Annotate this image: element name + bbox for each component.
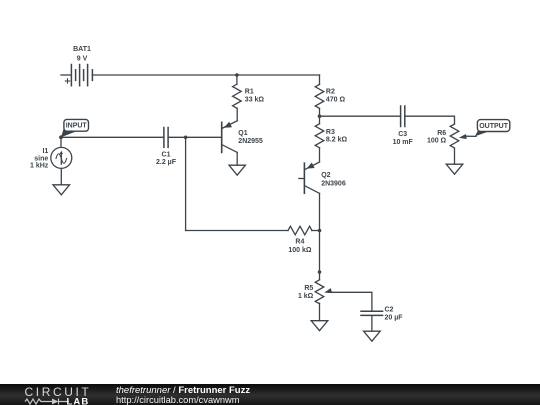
wire to R4 xyxy=(186,230,288,232)
svg-text:2N2955: 2N2955 xyxy=(238,138,263,145)
ground under Q1 xyxy=(229,165,245,175)
label R3 8.2 kΩ xyxy=(326,129,348,144)
label OUTPUT flag xyxy=(475,120,510,137)
wire C3 to R6 xyxy=(405,116,455,124)
resistor R4 xyxy=(288,226,312,235)
svg-text:9 V: 9 V xyxy=(77,55,88,62)
node junction C1 out xyxy=(184,136,188,140)
ground under I1 xyxy=(53,185,70,195)
label R2 470 Ω xyxy=(326,89,346,104)
footer url text xyxy=(116,395,239,405)
ground under C2 xyxy=(364,331,381,341)
svg-text:LAB: LAB xyxy=(67,397,90,405)
wire R2 drop xyxy=(319,75,321,84)
label BAT1 value xyxy=(73,46,91,62)
svg-text:R6: R6 xyxy=(437,130,446,137)
svg-text:I1: I1 xyxy=(42,148,48,155)
wire junction down xyxy=(185,137,187,230)
wire R6 wiper to OUTPUT xyxy=(465,135,477,137)
svg-text:BAT1: BAT1 xyxy=(73,46,91,53)
battery BAT1 xyxy=(61,65,92,86)
label Q1 2N2955 xyxy=(238,130,263,145)
label C3 10 mF xyxy=(393,131,414,146)
footer bar xyxy=(0,384,540,405)
svg-text:R1: R1 xyxy=(245,89,254,96)
svg-text:Q2: Q2 xyxy=(321,172,330,179)
wire Q1 collector down xyxy=(236,152,238,165)
capacitor C1 xyxy=(164,128,168,148)
node INPUT xyxy=(59,135,63,139)
wire C2 bottom lead xyxy=(371,315,373,331)
wire Q2 collector down xyxy=(319,193,321,230)
svg-text:INPUT: INPUT xyxy=(66,123,88,130)
potentiometer R6 xyxy=(450,124,467,148)
source I1 sine xyxy=(51,147,72,168)
resistor R2 xyxy=(315,84,324,108)
svg-text:R4: R4 xyxy=(295,239,304,246)
svg-text:1 kΩ: 1 kΩ xyxy=(298,293,314,300)
wire C1 to Q1 base xyxy=(168,136,222,138)
wire R1 top lead xyxy=(236,75,238,84)
svg-text:470 Ω: 470 Ω xyxy=(326,97,346,104)
wire input node to C1 xyxy=(61,136,164,138)
potentiometer R5 xyxy=(315,280,332,304)
wire R4 to junction xyxy=(312,230,320,232)
resistor R3 xyxy=(315,124,324,148)
node junction R4 xyxy=(318,229,322,233)
node junction above R5 xyxy=(318,270,322,274)
capacitor C2 xyxy=(361,311,383,315)
svg-text:33 kΩ: 33 kΩ xyxy=(245,96,265,103)
node junction top rail / R1 xyxy=(235,73,239,77)
svg-text:Q1: Q1 xyxy=(238,130,247,137)
resistor R1 xyxy=(233,84,242,108)
label R5 1 kΩ xyxy=(298,285,314,300)
wire R3 top lead xyxy=(319,116,321,124)
label R4 100 kΩ xyxy=(288,239,312,255)
wire I1 bottom lead xyxy=(60,168,62,184)
label C1 2.2 µF xyxy=(156,151,177,166)
wire R1 to Q1 emitter xyxy=(236,108,238,121)
footer title text xyxy=(116,385,250,396)
transistor Q1 xyxy=(222,121,238,153)
svg-text:C3: C3 xyxy=(398,131,407,138)
svg-text:8.2 kΩ: 8.2 kΩ xyxy=(326,137,348,144)
label Q2 2N3906 xyxy=(321,172,346,188)
ground under R6 xyxy=(446,164,463,174)
transistor Q2 xyxy=(299,162,320,193)
wire junction to C3 xyxy=(320,115,401,117)
capacitor C3 xyxy=(401,106,405,127)
svg-text:R5: R5 xyxy=(304,285,313,292)
label I1 sine 1 kHz xyxy=(30,148,49,170)
node junction R2 R3 xyxy=(318,114,322,118)
label R1 33 kΩ xyxy=(245,89,265,104)
ground under R5 xyxy=(311,321,328,331)
svg-text:10 mF: 10 mF xyxy=(393,139,414,146)
wire R5 bottom lead xyxy=(319,303,321,321)
svg-text:100 kΩ: 100 kΩ xyxy=(288,247,312,254)
svg-text:2.2 µF: 2.2 µF xyxy=(156,159,177,166)
svg-text:C2: C2 xyxy=(385,306,394,313)
svg-text:sine: sine xyxy=(34,155,48,162)
wire R3 to Q2 emitter xyxy=(319,148,321,162)
svg-text:2N3906: 2N3906 xyxy=(321,181,346,188)
wire R5 wiper to C2 xyxy=(331,292,372,311)
label INPUT flag xyxy=(61,119,89,137)
svg-text:C1: C1 xyxy=(162,151,171,158)
label C2 20 µF xyxy=(385,306,404,321)
svg-text:20 µF: 20 µF xyxy=(385,314,404,321)
svg-text:R3: R3 xyxy=(326,129,335,136)
svg-text:R2: R2 xyxy=(326,89,335,96)
label R6 100 Ω xyxy=(427,130,447,145)
svg-text:1 kHz: 1 kHz xyxy=(30,163,49,170)
wire top rail xyxy=(92,74,319,76)
wire I1 top lead xyxy=(60,137,62,147)
wire R6 bottom lead xyxy=(454,148,456,164)
svg-text:OUTPUT: OUTPUT xyxy=(479,123,509,130)
logo CircuitLab xyxy=(0,384,100,405)
svg-text:100 Ω: 100 Ω xyxy=(427,138,447,145)
wire R2 to junction xyxy=(319,108,321,116)
wire down to R5 xyxy=(319,231,321,280)
